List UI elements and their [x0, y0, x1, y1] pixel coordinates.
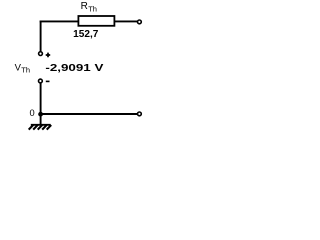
terminal b open circle bottom right — [138, 112, 142, 116]
svg-text:152,7: 152,7 — [73, 29, 99, 40]
wire vertical from - terminal down to node 0 — [40, 83, 42, 115]
wire vertical from top-left corner down to + terminal — [40, 21, 42, 52]
wire top horizontal right segment — [113, 20, 137, 22]
svg-text:0: 0 — [30, 108, 35, 118]
wire top horizontal left segment — [40, 20, 80, 22]
wire ground stem — [40, 114, 42, 125]
svg-text:Th: Th — [88, 5, 97, 14]
junction dot node 0 — [38, 112, 43, 117]
terminal - open circle — [39, 79, 43, 83]
svg-text:R: R — [81, 1, 88, 12]
polarity plus sign — [46, 53, 51, 58]
terminal + open circle — [39, 52, 43, 56]
terminal a open circle top right — [138, 20, 142, 24]
ground symbol bar — [31, 124, 51, 126]
polarity minus sign — [46, 80, 50, 82]
svg-text:Th: Th — [21, 66, 30, 75]
ground symbol hatches — [29, 125, 52, 130]
resistor RTh body — [78, 16, 114, 26]
wire bottom horizontal — [41, 113, 138, 115]
svg-text:-2,9091 V: -2,9091 V — [45, 63, 103, 74]
